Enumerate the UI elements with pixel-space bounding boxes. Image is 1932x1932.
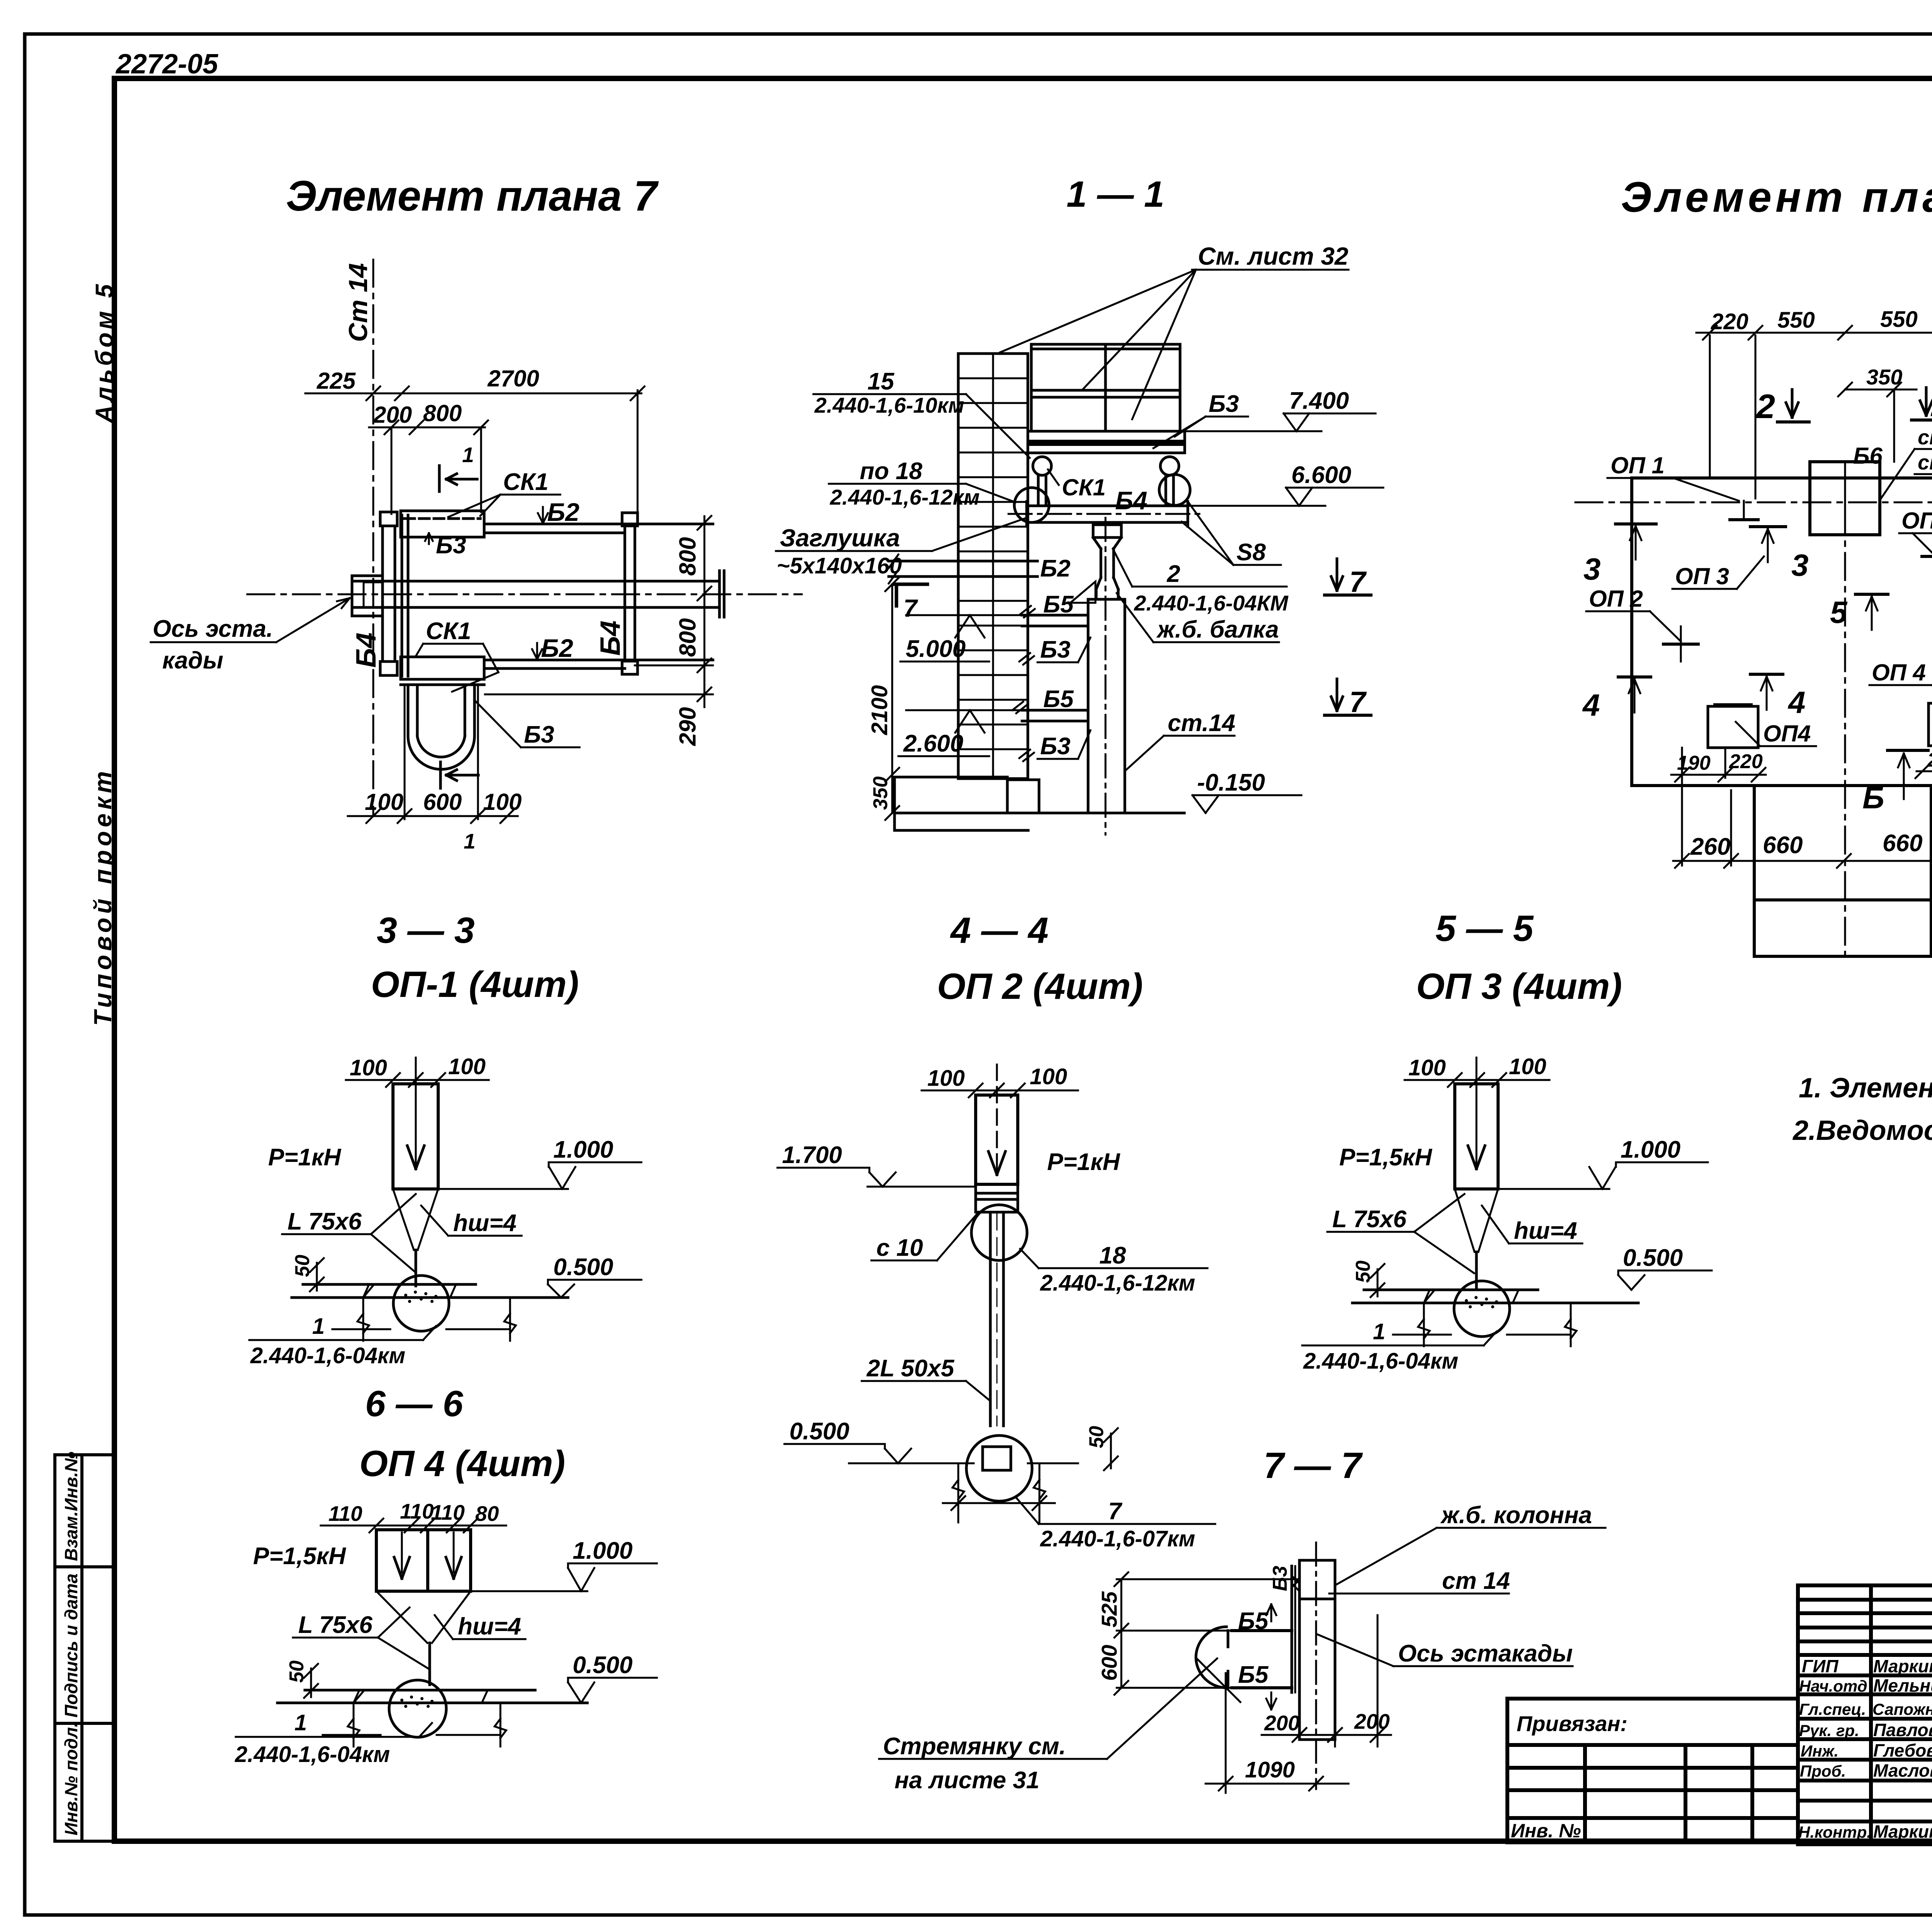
svg-text:Инж.: Инж.	[1801, 1742, 1838, 1760]
svg-text:1: 1	[1373, 1319, 1385, 1344]
svg-text:7: 7	[903, 594, 918, 622]
trestle axis (horizontal dash-dot)	[247, 594, 802, 595]
svg-text:660: 660	[1883, 830, 1922, 857]
svg-text:Типовой проект: Типовой проект	[89, 767, 117, 1026]
svg-text:2700: 2700	[487, 366, 539, 391]
bottom dim with breaks	[323, 1703, 506, 1747]
svg-text:15: 15	[867, 368, 895, 395]
section mark 2 left	[1791, 389, 1794, 417]
dim 100/100	[346, 1073, 489, 1087]
svg-text:Павлова: Павлова	[1873, 1720, 1932, 1740]
bottom dim with breaks	[943, 1463, 1055, 1522]
left dim 525/600	[1114, 1572, 1232, 1695]
svg-text:L 75х6: L 75х6	[298, 1612, 372, 1638]
svg-text:2272-05: 2272-05	[115, 49, 218, 80]
svg-text:1.000: 1.000	[1621, 1136, 1680, 1163]
hatch plate	[1292, 1576, 1299, 1591]
svg-text:ж.б. балка: ж.б. балка	[1156, 616, 1279, 643]
svg-text:1.000: 1.000	[573, 1537, 633, 1564]
svg-text:7: 7	[1349, 686, 1367, 719]
tall post box	[976, 1095, 1018, 1184]
section 7 mark top-left	[895, 584, 927, 606]
svg-text:220: 220	[1729, 750, 1763, 773]
svg-text:Мельников: Мельников	[1873, 1675, 1932, 1696]
svg-text:ГИП: ГИП	[1802, 1656, 1838, 1676]
steel column st.14	[1088, 599, 1125, 813]
vertical dividers left part	[1869, 1585, 1873, 1844]
OP4 box left	[1708, 706, 1758, 748]
svg-text:3: 3	[1791, 548, 1809, 582]
svg-text:Маркин: Маркин	[1873, 1821, 1932, 1842]
detail circle top	[971, 1205, 1027, 1260]
svg-text:100: 100	[483, 789, 522, 815]
svg-text:Маркитедер: Маркитедер	[1873, 1656, 1932, 1676]
svg-text:2100: 2100	[867, 685, 892, 735]
svg-text:5 — 5: 5 — 5	[1435, 908, 1534, 949]
svg-text:50: 50	[1085, 1426, 1108, 1448]
svg-text:Подпись и дата: Подпись и дата	[61, 1573, 81, 1718]
twin post box	[376, 1530, 471, 1591]
svg-text:110: 110	[328, 1502, 362, 1526]
horizontal centerline	[1575, 502, 1932, 503]
vertical centerline	[1844, 462, 1846, 958]
svg-text:Элемент плана 7: Элемент плана 7	[286, 172, 659, 220]
DETAIL 4-4 (OP-2)	[777, 1064, 1215, 1551]
svg-text:2.440-1,6-04км: 2.440-1,6-04км	[235, 1742, 390, 1767]
svg-text:Заглушка: Заглушка	[780, 524, 900, 552]
svg-text:Б5: Б5	[1043, 591, 1074, 618]
svg-text:Б3: Б3	[1040, 733, 1070, 760]
svg-text:ОП4: ОП4	[1763, 721, 1811, 747]
svg-text:hш=4: hш=4	[1514, 1218, 1577, 1244]
svg-text:350: 350	[1866, 365, 1902, 389]
funnel	[376, 1591, 471, 1685]
svg-text:1: 1	[312, 1314, 325, 1339]
svg-text:5.000: 5.000	[906, 636, 966, 662]
load arrow	[1476, 1058, 1478, 1165]
svg-text:6 — 6: 6 — 6	[365, 1383, 464, 1424]
support mark F with 4	[1618, 675, 1651, 679]
svg-text:c 10: c 10	[876, 1235, 923, 1261]
svg-text:2L 50х5: 2L 50х5	[866, 1355, 955, 1382]
SK1 clamps	[1033, 457, 1179, 505]
svg-text:ОП 3: ОП 3	[1675, 563, 1729, 589]
svg-text:800: 800	[675, 618, 701, 657]
svg-text:3: 3	[1583, 552, 1601, 586]
svg-text:0.500: 0.500	[573, 1652, 633, 1679]
svg-text:hш=4: hш=4	[458, 1613, 521, 1640]
svg-text:0.500: 0.500	[789, 1418, 849, 1445]
main plan rectangle	[1632, 478, 1932, 786]
svg-text:Гл.спец.: Гл.спец.	[1799, 1700, 1866, 1718]
svg-text:ОП 4: ОП 4	[1872, 660, 1926, 685]
post box	[393, 1084, 438, 1189]
beam B5 lower	[1022, 710, 1088, 721]
svg-text:ст.15: ст.15	[1918, 426, 1932, 449]
twin angle member	[990, 1212, 1003, 1426]
svg-text:50: 50	[286, 1660, 308, 1683]
steel post line	[1291, 1566, 1293, 1692]
svg-text:ОП-1 (4шт): ОП-1 (4шт)	[371, 964, 579, 1005]
svg-text:100: 100	[350, 1055, 387, 1080]
svg-text:2: 2	[1755, 387, 1775, 425]
svg-text:Б2: Б2	[547, 498, 580, 526]
svg-text:Б5: Б5	[1043, 686, 1074, 713]
lower connection box SK1	[401, 657, 484, 685]
svg-text:Б6: Б6	[1853, 443, 1883, 469]
svg-text:Б3: Б3	[1040, 636, 1070, 663]
svg-text:ст.16: ст.16	[1918, 451, 1932, 474]
svg-text:0.500: 0.500	[553, 1254, 613, 1281]
svg-text:ОП 2: ОП 2	[1589, 586, 1643, 612]
svg-text:2.440-1,6-04КМ: 2.440-1,6-04КМ	[1134, 591, 1289, 615]
svg-text:550: 550	[1777, 308, 1815, 333]
svg-text:200: 200	[373, 402, 412, 428]
B5 beam top line	[1232, 1629, 1292, 1632]
support mark B with 3	[1750, 525, 1786, 528]
upper connection plate SK1	[401, 511, 484, 537]
base plate and ground line	[303, 1283, 476, 1286]
column axis Ст14 (vertical dash-dot)	[372, 260, 374, 816]
base plate and ground line	[305, 1689, 535, 1692]
svg-text:~5х140х160: ~5х140х160	[777, 553, 902, 578]
svg-text:Альбом 5: Альбом 5	[90, 281, 118, 424]
name rows	[1798, 1653, 1932, 1657]
svg-text:50: 50	[291, 1255, 314, 1277]
svg-text:220: 220	[1711, 309, 1748, 334]
section marks 7 right	[1325, 559, 1371, 595]
support mark G with 4	[1750, 673, 1783, 676]
beam B2 stub through wall	[889, 554, 1037, 583]
svg-text:7 — 7: 7 — 7	[1264, 1445, 1363, 1486]
svg-text:5: 5	[1830, 595, 1848, 629]
svg-text:См. лист 32: См. лист 32	[1198, 242, 1349, 270]
svg-text:600: 600	[1097, 1645, 1121, 1681]
plate at el.7.400 (B3)	[1028, 431, 1185, 453]
svg-text:по 18: по 18	[860, 458, 922, 485]
axis extension line	[1117, 1578, 1299, 1580]
svg-text:ж.б. колонна: ж.б. колонна	[1440, 1502, 1592, 1529]
svg-text:Н.контр.: Н.контр.	[1798, 1823, 1871, 1841]
left protrusion box	[352, 576, 383, 616]
svg-text:225: 225	[316, 368, 356, 394]
svg-text:1.700: 1.700	[782, 1142, 842, 1168]
ladder arc	[1196, 1627, 1226, 1688]
beam B5 upper	[1022, 615, 1088, 626]
SECTION 1-1	[776, 242, 1383, 835]
svg-text:2.440-1,6-12км: 2.440-1,6-12км	[830, 485, 980, 509]
svg-text:100: 100	[365, 789, 403, 815]
dim 100/100	[1405, 1073, 1549, 1087]
right dim 800/800/290	[485, 516, 713, 707]
svg-text:220: 220	[1927, 749, 1932, 771]
svg-text:550: 550	[1880, 307, 1918, 332]
lower beam B2 lines	[484, 659, 713, 662]
svg-text:600: 600	[423, 789, 462, 815]
svg-text:S8: S8	[1236, 539, 1266, 566]
svg-text:200: 200	[1264, 1711, 1300, 1735]
svg-text:Рук. гр.: Рук. гр.	[1799, 1721, 1859, 1740]
svg-text:1.000: 1.000	[553, 1136, 613, 1163]
svg-text:кады: кады	[162, 647, 223, 674]
svg-text:Б3: Б3	[436, 532, 466, 559]
svg-text:Б3: Б3	[1209, 391, 1239, 417]
PLAN ELEMENT 7	[151, 260, 802, 853]
svg-text:ОП 3: ОП 3	[1901, 508, 1932, 534]
svg-text:2: 2	[1167, 561, 1180, 587]
svg-text:ОП 4 (4шт): ОП 4 (4шт)	[359, 1443, 565, 1484]
load arrows	[401, 1532, 403, 1573]
brick wall column	[958, 354, 1028, 779]
dim 190/220 left	[1671, 748, 1766, 866]
svg-text:Проб.: Проб.	[1800, 1762, 1846, 1780]
DETAIL 3-3 (OP-1)	[249, 1054, 641, 1368]
base plate and ground line	[1364, 1289, 1538, 1291]
svg-text:Б4: Б4	[1115, 486, 1147, 515]
svg-text:Б3: Б3	[524, 721, 554, 748]
support mark D with 5	[1855, 593, 1888, 596]
funnel to angle post	[1455, 1189, 1498, 1290]
svg-text:Маслова: Маслова	[1873, 1760, 1932, 1781]
dim line 225 / 2700	[305, 386, 645, 526]
support mark OP3 right	[1922, 555, 1932, 558]
svg-text:4: 4	[1787, 685, 1806, 719]
svg-text:100: 100	[1408, 1055, 1446, 1080]
svg-text:P=1,5кН: P=1,5кН	[1339, 1144, 1432, 1171]
svg-text:7: 7	[1108, 1498, 1122, 1525]
section mark 2 right	[1925, 388, 1928, 415]
svg-text:18: 18	[1099, 1242, 1126, 1269]
svg-text:Ось эстакады: Ось эстакады	[1398, 1640, 1573, 1667]
svg-text:на листе 31: на листе 31	[895, 1767, 1039, 1794]
svg-text:80: 80	[475, 1502, 499, 1526]
svg-text:Б: Б	[1862, 781, 1884, 815]
bottom dim 100/600/100	[348, 809, 518, 823]
svg-text:Инв. №: Инв. №	[1511, 1820, 1581, 1842]
svg-text:Б2: Б2	[541, 634, 573, 662]
svg-text:ОП 2 (4шт): ОП 2 (4шт)	[937, 966, 1143, 1007]
svg-text:2.440-1,6-04км: 2.440-1,6-04км	[1303, 1349, 1458, 1374]
detail circle	[1454, 1281, 1510, 1337]
svg-text:СК1: СК1	[426, 618, 471, 645]
foundation	[895, 777, 1184, 830]
svg-text:1 — 1: 1 — 1	[1066, 174, 1164, 215]
LEFT ATTACH TABLE	[1507, 1699, 1798, 1842]
dim 350	[1838, 383, 1917, 462]
svg-text:Инв.№ подл.: Инв.№ подл.	[61, 1722, 81, 1835]
svg-text:Ось эста.: Ось эста.	[153, 616, 273, 642]
svg-text:Б4: Б4	[351, 633, 382, 668]
svg-text:ОП 1: ОП 1	[1611, 452, 1665, 478]
concrete column	[1299, 1560, 1335, 1740]
svg-text:2.440-1,6-07км: 2.440-1,6-07км	[1040, 1526, 1195, 1551]
top dim 220/550/550/220	[1696, 326, 1932, 498]
svg-text:Сапожникова: Сапожникова	[1872, 1700, 1932, 1718]
base plate	[983, 1447, 1011, 1470]
funnel to angle post	[393, 1189, 438, 1286]
DETAIL 7-7	[879, 1502, 1605, 1794]
tank box on top	[1031, 344, 1180, 431]
detail circle	[393, 1276, 449, 1331]
svg-text:350: 350	[869, 776, 892, 810]
svg-text:2.440-1,6-12км: 2.440-1,6-12км	[1040, 1270, 1195, 1296]
left dim 2100 / 350	[885, 577, 899, 820]
svg-text:ст.14: ст.14	[1168, 710, 1235, 736]
svg-text:ОП 3 (4шт): ОП 3 (4шт)	[1416, 966, 1622, 1007]
beam B4 at el.6.600	[1027, 502, 1188, 526]
svg-text:50: 50	[1352, 1260, 1374, 1283]
svg-text:-0.150: -0.150	[1197, 769, 1265, 796]
B5 beam bottom line	[1232, 1686, 1292, 1689]
TITLES	[286, 172, 1932, 1486]
svg-text:1: 1	[294, 1710, 307, 1735]
PLAN ELEMENT 8	[1575, 307, 1932, 958]
svg-text:Б2: Б2	[1040, 555, 1070, 582]
dim 110/110/110/80	[321, 1519, 506, 1532]
svg-text:660: 660	[1763, 832, 1803, 859]
svg-text:7: 7	[1349, 566, 1367, 599]
svg-text:Б4: Б4	[595, 621, 626, 656]
svg-text:Б3: Б3	[1269, 1566, 1291, 1591]
TITLE BLOCK	[1798, 1585, 1932, 1885]
dim 200/200	[1262, 1615, 1391, 1747]
bottom dim with break	[1393, 1303, 1577, 1346]
bottom dim with break	[332, 1298, 516, 1341]
svg-text:525: 525	[1097, 1591, 1121, 1628]
upper beam B2 lines	[484, 523, 713, 526]
detail circle	[389, 1680, 446, 1737]
svg-text:100: 100	[1030, 1064, 1067, 1089]
extension lines to bottom dim	[404, 685, 406, 819]
post box	[1455, 1084, 1498, 1189]
svg-text:1. Элементы плана замаркиров: 1. Элементы плана замаркированы на листе…	[1799, 1073, 1932, 1104]
clamp circles po18 / S8	[1014, 488, 1049, 522]
svg-text:P=1,5кН: P=1,5кН	[253, 1543, 346, 1570]
dim line 200 / 800	[369, 420, 488, 514]
svg-text:hш=4: hш=4	[453, 1210, 517, 1236]
svg-text:7.400: 7.400	[1289, 388, 1349, 414]
svg-text:L 75х6: L 75х6	[287, 1208, 362, 1235]
svg-text:2.440-1,6-04км: 2.440-1,6-04км	[250, 1343, 405, 1368]
svg-text:110: 110	[431, 1500, 465, 1524]
svg-text:2.440-1,6-10км: 2.440-1,6-10км	[814, 393, 964, 417]
svg-text:P=1кН: P=1кН	[1047, 1149, 1120, 1175]
dim 1090	[1206, 1673, 1349, 1793]
section mark 1 (top)	[439, 466, 477, 492]
svg-text:200: 200	[1354, 1709, 1390, 1733]
bottom tongue	[1754, 788, 1931, 956]
svg-text:100: 100	[927, 1066, 965, 1091]
svg-text:P=1кН: P=1кН	[268, 1144, 341, 1171]
NOTES	[1792, 1073, 1932, 1146]
svg-text:Элемент плана 8: Элемент плана 8	[1621, 173, 1932, 221]
svg-text:1090: 1090	[1245, 1757, 1295, 1782]
svg-text:2.Ведомость элементов см.лис: 2.Ведомость элементов см.лист 28.	[1792, 1115, 1932, 1146]
beam B4 right plate	[622, 513, 638, 674]
OP4 box right	[1929, 703, 1932, 746]
bottom dim 260/660/660/260	[1673, 626, 1932, 868]
svg-text:2.600: 2.600	[903, 730, 963, 757]
beam B6 box	[1810, 462, 1880, 535]
svg-text:Привязан:: Привязан:	[1517, 1711, 1628, 1736]
svg-text:Б5: Б5	[1238, 1662, 1269, 1688]
section mark 1 (bottom)	[440, 762, 478, 788]
svg-text:1: 1	[462, 443, 474, 467]
svg-text:ст 14: ст 14	[1442, 1568, 1510, 1594]
svg-text:0.500: 0.500	[1623, 1245, 1683, 1271]
svg-text:190: 190	[1677, 752, 1711, 774]
svg-text:800: 800	[423, 400, 462, 426]
bottom-left margin boxes	[55, 1455, 114, 1841]
support mark OP2 left	[1663, 643, 1698, 646]
mark B bottom	[1888, 749, 1928, 752]
svg-text:СК1: СК1	[503, 469, 548, 495]
svg-text:110: 110	[400, 1499, 434, 1523]
beam B4 left plate	[380, 512, 408, 676]
svg-text:3 — 3: 3 — 3	[377, 910, 474, 951]
dim 220/190 right	[1915, 657, 1932, 866]
svg-text:1: 1	[464, 829, 476, 853]
svg-text:100: 100	[448, 1054, 486, 1079]
detail circle bottom	[966, 1435, 1032, 1501]
svg-text:Глебова: Глебова	[1873, 1740, 1932, 1760]
DETAIL 6-6 (OP-4)	[235, 1499, 657, 1767]
svg-text:800: 800	[675, 537, 701, 576]
svg-text:6.600: 6.600	[1291, 462, 1351, 488]
svg-text:СК1: СК1	[1062, 474, 1106, 500]
channel beam B3 below (plan section)	[408, 685, 474, 769]
svg-text:Нач.отд: Нач.отд	[1799, 1677, 1867, 1695]
svg-text:4 — 4: 4 — 4	[950, 910, 1048, 951]
svg-text:Взам.Инв.№: Взам.Инв.№	[61, 1451, 81, 1561]
central beam band	[352, 571, 724, 617]
rc beam (I profile)	[1093, 525, 1121, 599]
thin top rows	[1798, 1598, 1932, 1602]
load arrow	[415, 1058, 417, 1165]
column axis dash-dot	[1315, 1543, 1317, 1789]
support mark A with 3	[1616, 522, 1656, 526]
connection at bottom of post	[976, 1184, 1018, 1212]
svg-text:260: 260	[1690, 833, 1730, 860]
svg-text:L 75х6: L 75х6	[1332, 1206, 1406, 1233]
DETAIL 5-5 (OP-3)	[1302, 1054, 1712, 1374]
svg-text:Стремянку см.: Стремянку см.	[883, 1733, 1066, 1760]
svg-text:4: 4	[1582, 688, 1600, 722]
dim 100/100	[922, 1083, 1078, 1097]
svg-text:100: 100	[1509, 1054, 1546, 1079]
svg-text:Ст 14: Ст 14	[344, 263, 373, 342]
svg-text:290: 290	[675, 707, 701, 746]
